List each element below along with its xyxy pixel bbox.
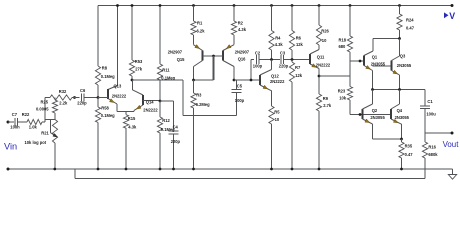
value 680 R18 [339,44,347,49]
svg-text:0.0005: 0.0005 [36,107,49,112]
wire Q13 emitter [116,104,118,112]
wire Q3 emitter drop [399,75,401,90]
svg-text:Vin: Vin [4,142,17,152]
potentiometer R21 [52,120,57,170]
svg-text:C6: C6 [80,88,86,93]
svg-text:6.2k: 6.2k [197,29,206,34]
svg-text:Q15: Q15 [177,57,185,62]
svg-text:100p: 100p [235,98,245,103]
node R24 bottom [398,37,401,40]
resistor R3 [191,80,196,169]
value 4.3k R15 [128,124,137,129]
svg-text:C3: C3 [280,51,286,56]
svg-text:R8: R8 [102,66,108,71]
node R5 ground [270,168,273,171]
svg-text:R23: R23 [338,89,346,94]
value 6.2Meg R3 [196,102,210,107]
capacitor C5 [232,80,242,116]
resistor R26 [316,6,321,46]
svg-text:10k log pot: 10k log pot [25,140,47,145]
node R12 ground [159,168,162,171]
label 2N2907 Q16 [235,50,250,55]
wire emitter join [117,111,134,113]
transistor Q4 [391,104,402,124]
capacitor C3 [281,55,310,64]
svg-text:680k: 680k [428,152,438,157]
resistor R1 [191,6,196,45]
label R23 [338,89,346,94]
svg-text:2N2222: 2N2222 [270,79,285,84]
node Q16 collector [233,79,236,82]
wire R22 to corner [42,98,45,123]
label Q15 [177,57,185,62]
wire Q4 emitter drop [401,124,403,139]
capacitor C7 [15,118,27,126]
svg-text:0.1Meg: 0.1Meg [101,74,115,79]
svg-text:2N3055: 2N3055 [397,63,412,68]
label Q4 [397,108,403,113]
resistor R22 [27,119,42,124]
wire ground bottom rail [8,168,453,170]
wire Q2 collector riser [372,90,374,105]
svg-text:0.1Meg: 0.1Meg [101,113,115,118]
label R21 [41,131,49,136]
node R15 ground [125,168,128,171]
value 10k log pot [25,140,47,145]
svg-text:R35: R35 [405,144,413,149]
node Q1 output [371,88,374,91]
svg-text:6.2Meg: 6.2Meg [196,102,210,107]
wire Q13 collector drop [108,6,118,90]
node Q14 collector [131,79,134,82]
node top rail x350 [349,4,352,7]
value 2N2222 Q14 [143,107,158,112]
value 100n C7 [10,125,20,130]
label Q13 [114,83,122,88]
svg-text:R15: R15 [128,116,136,121]
svg-text:2N3055: 2N3055 [370,115,385,120]
svg-text:2N2907: 2N2907 [235,50,250,55]
wire lower return rail [75,169,425,179]
port Vout terminal [451,132,454,135]
node pot bottom [53,168,56,171]
wire R18 to Q1 base [350,61,364,76]
svg-text:Q2: Q2 [372,108,378,113]
svg-text:27k: 27k [135,67,143,72]
node top rail x399 [398,4,401,7]
wire R11 drop [159,6,161,65]
svg-text:10: 10 [322,38,327,43]
svg-text:R58: R58 [101,106,109,111]
resistor R16 [422,142,427,179]
svg-text:R22: R22 [22,112,30,117]
svg-text:2N3055: 2N3055 [395,115,410,120]
wire comp bus [251,59,254,61]
transistor Q12 [260,60,272,91]
value 0.1Meg R11 [161,76,175,81]
svg-text:100p: 100p [253,63,263,68]
port Vin terminal [7,121,10,124]
value 0.1Meg R8 [101,74,115,79]
wire R23 to Q2 Q4 base [350,114,391,116]
node top rail x118 [116,4,119,7]
label C4 [173,125,179,130]
label R18 [339,38,347,43]
node top rail x234 [233,4,236,7]
wire Q14 collector bus [132,79,183,81]
svg-text:R32: R32 [59,89,67,94]
wire Q4 collector riser [399,90,401,105]
value 2N2222 Q13 [112,94,127,99]
svg-text:R9: R9 [323,96,329,101]
label R32 [59,89,67,94]
svg-text:Q11: Q11 [317,55,325,60]
value 10 R5 [275,117,280,122]
wire Q3 collector riser [399,39,401,57]
value 2N3055 Q1 [371,62,386,67]
svg-text:10: 10 [275,117,280,122]
svg-text:C5: C5 [237,84,243,89]
label Q11 [317,55,325,60]
capacitor C6 [81,94,98,102]
wire Q2 emitter drop [373,124,402,139]
node R4 bus [270,58,273,61]
resistor R25 [52,98,57,120]
wire Q16 collector to Q12 base [234,79,260,81]
label R6 [296,35,302,40]
capacitor C4 [169,101,179,169]
resistor R23 [347,76,352,115]
label C6 [80,88,86,93]
value 12k R6 [296,42,304,47]
value 10 R26 [322,38,327,43]
value 10k R23 [339,96,347,101]
node Q13 base [97,96,100,99]
node Q12 base wire [250,79,253,82]
wire Vout tap [425,132,452,134]
port ground terminal [7,168,10,171]
label R53 [135,59,143,64]
label R7 [295,65,301,70]
svg-text:C2: C2 [255,51,261,56]
label R4 [275,35,281,40]
resistor R24 [397,6,402,39]
wire to R32 [45,97,50,99]
node R35 ground [400,168,403,171]
Vout label [443,140,460,149]
svg-text:4.3k: 4.3k [238,27,247,32]
node R7 ground [291,168,294,171]
label R11 [162,68,170,73]
value 4.3k R4 [275,42,284,47]
value 100u C1 [426,112,436,117]
Vin label [4,142,17,152]
value 220p C6 [77,100,87,105]
svg-text:R4: R4 [275,35,281,40]
svg-text:100u: 100u [426,112,436,117]
label R3 [196,93,202,98]
resistor R35 [399,139,404,169]
wire base join drop [194,56,214,80]
label Q2 [372,108,378,113]
svg-text:R18: R18 [339,38,347,43]
node Q15 collector [192,79,195,82]
resistor R9 [316,94,321,169]
value 220p C4 [171,139,181,144]
wire Q12 base riser [250,60,252,81]
label R5 [274,110,280,115]
svg-text:Q13: Q13 [114,83,122,88]
transistor Q1 [364,51,373,71]
node C4 ground [172,168,175,171]
value 27k R53 [135,67,143,72]
svg-text:Vout: Vout [443,140,460,149]
node top rail x271 [270,4,273,7]
wire Q11 emitter to R23 [319,75,350,77]
svg-text:V: V [449,11,455,21]
svg-text:C7: C7 [12,112,18,117]
svg-text:R21: R21 [41,131,49,136]
wire base to C4 [160,100,174,102]
power +V port [444,11,455,21]
wire R53 drop [131,6,133,61]
svg-text:R6: R6 [296,35,302,40]
svg-text:R5: R5 [274,110,280,115]
transistor Q15 [194,45,203,80]
label R15 [128,116,136,121]
value 6.2k R1 [197,29,206,34]
svg-text:2N2222: 2N2222 [143,107,158,112]
node R3 ground [192,168,195,171]
node R6 bus [291,58,294,61]
transistor Q3 [392,56,400,75]
wire node to pot top [45,119,55,121]
value 100p C2 [253,63,263,68]
svg-text:R12: R12 [162,118,170,123]
label R22 [22,112,30,117]
resistor R5 [269,90,274,169]
value 1.0k R22 [29,125,38,130]
label R26 [321,29,329,34]
svg-text:220p: 220p [77,100,87,105]
value 0.47 R35 [405,152,414,157]
label C7 [12,112,18,117]
node Q2 base [359,113,362,116]
svg-text:R26: R26 [321,29,329,34]
svg-text:12k: 12k [296,42,304,47]
value 0.0005 R25 [36,107,49,112]
value 0.1Meg R12 [161,127,175,132]
svg-text:12k: 12k [295,73,303,78]
value 220p C3 [279,63,289,68]
transistor Q14 [134,95,160,110]
resistor R18 [347,6,352,62]
svg-text:10k: 10k [339,96,347,101]
label 2N2907 Q15 [168,50,183,55]
resistor R53 [129,60,134,80]
label R25 [41,99,49,104]
svg-text:R3: R3 [196,93,202,98]
value 2N2222 Q11 [316,62,331,67]
svg-text:2.2k: 2.2k [59,100,68,105]
resistor R6 [289,6,294,60]
pot R21 wiper [50,120,57,138]
value 0.47 R24 [406,26,415,31]
value 4.3k R2 [238,27,247,32]
node top rail x132 [131,4,134,7]
value 2N3055 Q3 [397,63,412,68]
svg-text:R7: R7 [295,65,301,70]
svg-text:1.0k: 1.0k [29,125,38,130]
wire Q14 emitter [133,110,135,111]
transistor Q11 [310,45,319,69]
label Q12 [271,73,279,78]
label C5 [237,84,243,89]
value 2N3055 Q2 [370,115,385,120]
node Q3 output [398,88,401,91]
label R8 [102,66,108,71]
label C3 [280,51,286,56]
wire C5 bottom route [183,80,237,116]
svg-text:2N2907: 2N2907 [168,50,183,55]
svg-text:680: 680 [339,44,347,49]
value 2N3055 Q4 [395,115,410,120]
value 2N2222 Q12 [270,79,285,84]
svg-text:R1: R1 [197,21,203,26]
label Q16 [238,57,246,62]
label Q1 [372,54,378,59]
resistor R8 [95,66,100,98]
svg-text:4.3k: 4.3k [128,124,137,129]
label R2 [238,21,244,26]
wire ground stub [452,169,454,175]
wire top-left drop [97,6,99,67]
wire input [8,121,14,123]
wire Q1 emitter drop [372,71,374,90]
wire output rail [373,89,426,91]
transistor Q16 [223,45,234,80]
resistor R15 [123,112,128,170]
resistor R12 [157,101,162,169]
resistor R32 [50,95,72,100]
transistor Q13 [98,89,117,104]
wire Q11 emitter drop [318,69,320,95]
node top rail x160 [159,4,162,7]
wire Q15 base join [203,55,224,57]
value 12k R7 [295,73,303,78]
svg-text:220p: 220p [279,63,289,68]
svg-text:Q3: Q3 [400,54,406,59]
wire Q14 collector [132,80,143,95]
resistor R2 [231,6,236,45]
svg-text:Q14: Q14 [146,100,154,105]
label R12 [162,118,170,123]
label Q3 [400,54,406,59]
value 2.2k R32 [59,100,68,105]
svg-text:R53: R53 [135,59,143,64]
wire Q3 base [373,65,392,67]
node +V rail end [451,4,454,7]
value 2.7k R9 [323,103,332,108]
svg-text:2N2222: 2N2222 [112,94,127,99]
svg-text:Q1: Q1 [372,54,378,59]
value 680k R16 [428,152,438,157]
resistor R7 [289,60,294,170]
svg-text:R25: R25 [41,99,49,104]
label Q14 [146,100,154,105]
svg-text:2.7k: 2.7k [323,103,332,108]
label R24 [406,18,414,23]
svg-text:Q16: Q16 [238,57,246,62]
svg-text:220p: 220p [171,139,181,144]
wire collector join [373,39,400,52]
svg-text:Q12: Q12 [271,73,279,78]
svg-text:C1: C1 [427,99,433,104]
wire R32 to C6 [72,97,80,99]
label R16 [428,144,436,149]
resistor R58 [95,98,100,170]
capacitor C2 [256,55,279,64]
label R58 [101,106,109,111]
label R1 [197,21,203,26]
node R32-C6 [73,96,76,99]
ground symbol [448,175,456,180]
svg-text:2N2222: 2N2222 [316,62,331,67]
node top rail x193 [192,4,195,7]
svg-text:C4: C4 [173,125,179,130]
svg-text:R24: R24 [406,18,414,23]
label C1 [427,99,433,104]
value 0.1Meg R58 [101,113,115,118]
label C2 [255,51,261,56]
node R58 ground [97,168,100,171]
resistor R11 [157,64,162,101]
wire +V top rail [98,5,452,7]
svg-text:Q4: Q4 [397,108,403,113]
node top rail x319 [318,4,321,7]
label R35 [405,144,413,149]
svg-text:R16: R16 [428,144,436,149]
node Q1 base [359,60,362,63]
capacitor C1 [420,90,430,143]
resistor R4 [269,6,274,60]
node Q15 base [212,55,215,58]
node Q11 ground [318,168,321,171]
svg-text:4.3k: 4.3k [275,42,284,47]
transistor Q2 [363,104,373,124]
node Q14 base [159,100,162,103]
svg-text:0.47: 0.47 [406,26,415,31]
node top rail x292 [291,4,294,7]
node emitter join [400,138,403,141]
svg-text:R2: R2 [238,21,244,26]
svg-text:R11: R11 [162,68,170,73]
node Q11 emitter [318,75,321,78]
label R9 [323,96,329,101]
svg-text:100n: 100n [10,125,20,130]
value 100p C5 [235,98,245,103]
svg-text:0.47: 0.47 [405,152,414,157]
